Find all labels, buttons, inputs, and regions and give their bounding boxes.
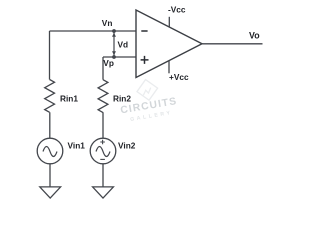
wire: Rin1 to Vin1 [49, 112, 51, 138]
wire: left vertical down to Rin1 [49, 31, 51, 80]
svg-text:Vd: Vd [118, 39, 129, 49]
wire: output [202, 43, 263, 45]
op-amp minus sign [141, 30, 147, 32]
resistor Rin1 [45, 80, 55, 113]
wire: Rin2 to Vin2 [102, 112, 104, 138]
Vd arrow up [112, 33, 116, 37]
-Vcc supply line [168, 17, 170, 27]
svg-text:Rin2: Rin2 [113, 93, 131, 103]
svg-text:Vin2: Vin2 [118, 140, 136, 150]
wire: Vp horizontal to non-inverting input [103, 56, 136, 58]
wire: Vin2 to ground [102, 164, 104, 187]
wire: vertical down to Rin2 [102, 57, 104, 80]
ground 1 [40, 187, 61, 198]
svg-text:Vn: Vn [102, 18, 113, 28]
svg-text:Vin1: Vin1 [68, 140, 86, 150]
op-amp U1 triangle [136, 10, 202, 78]
ground 2 [93, 187, 114, 198]
wire: top horizontal Vn wire to inverting input [50, 30, 137, 32]
+Vcc supply line [168, 61, 170, 74]
source Vin2 plus mark [100, 140, 105, 145]
source Vin1 sine [43, 147, 57, 157]
svg-text:-Vcc: -Vcc [168, 4, 186, 14]
svg-text:Vo: Vo [249, 31, 260, 41]
watermark logo diamond [135, 78, 159, 102]
Vd dimension line [113, 31, 115, 57]
source Vin2 sine [96, 147, 110, 157]
resistor Rin2 [98, 80, 108, 113]
node Vp junction dot [112, 55, 116, 59]
source Vin2 circle [90, 138, 116, 164]
source Vin1 circle [37, 138, 63, 164]
svg-text:Rin1: Rin1 [60, 93, 78, 103]
op-amp plus sign [141, 56, 149, 64]
svg-text:Vp: Vp [103, 58, 114, 68]
source Vin2 minus mark [100, 158, 105, 160]
Vd arrow down [112, 51, 116, 55]
node Vn junction dot [112, 29, 116, 33]
svg-text:+Vcc: +Vcc [169, 72, 189, 82]
wire: Vin1 to ground [49, 164, 51, 187]
